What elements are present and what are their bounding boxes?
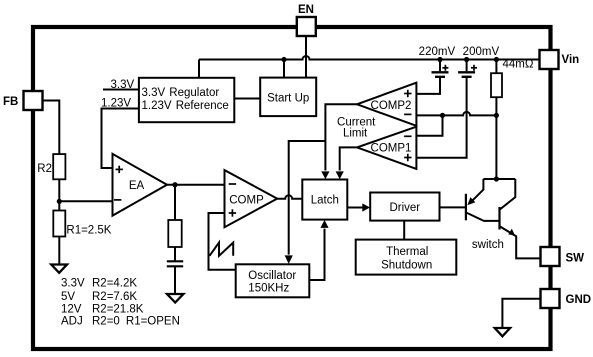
svg-text:FB: FB	[3, 96, 18, 108]
svg-text:44mΩ: 44mΩ	[503, 59, 534, 71]
svg-text:EN: EN	[298, 4, 314, 16]
svg-text:GND: GND	[566, 294, 592, 306]
svg-text:COMP: COMP	[229, 194, 264, 206]
svg-text:3.3V: 3.3V	[61, 277, 85, 289]
svg-text:12V: 12V	[61, 303, 82, 315]
svg-text:Shutdown: Shutdown	[381, 259, 432, 271]
svg-text:COMP1: COMP1	[371, 143, 412, 155]
svg-text:1.23V Reference: 1.23V Reference	[142, 100, 229, 112]
svg-text:R2=7.6K: R2=7.6K	[92, 291, 137, 303]
svg-text:5V: 5V	[61, 291, 75, 303]
svg-text:Latch: Latch	[311, 195, 339, 207]
svg-text:Driver: Driver	[389, 202, 420, 214]
svg-text:R2=4.2K: R2=4.2K	[92, 277, 137, 289]
svg-text:switch: switch	[472, 239, 504, 251]
svg-text:Thermal: Thermal	[386, 246, 428, 258]
svg-text:R2=0: R2=0	[92, 316, 120, 328]
svg-text:R1=OPEN: R1=OPEN	[126, 316, 180, 328]
svg-text:Limit: Limit	[343, 127, 368, 139]
svg-text:Start Up: Start Up	[267, 92, 309, 104]
svg-text:ADJ: ADJ	[61, 316, 83, 328]
svg-text:3.3V: 3.3V	[111, 79, 135, 91]
svg-text:220mV: 220mV	[419, 46, 456, 58]
svg-text:EA: EA	[129, 180, 145, 192]
svg-text:3.3V Regulator: 3.3V Regulator	[142, 87, 220, 99]
svg-text:R2=21.8K: R2=21.8K	[92, 303, 144, 315]
svg-text:R2: R2	[37, 163, 52, 175]
svg-text:1.23V: 1.23V	[101, 98, 131, 110]
svg-text:150KHz: 150KHz	[248, 283, 289, 295]
svg-text:R1=2.5K: R1=2.5K	[66, 225, 111, 237]
svg-text:COMP2: COMP2	[371, 100, 412, 112]
svg-text:Vin: Vin	[562, 54, 580, 66]
svg-text:200mV: 200mV	[463, 46, 500, 58]
svg-text:SW: SW	[566, 253, 585, 265]
svg-text:Oscillator: Oscillator	[248, 270, 296, 282]
